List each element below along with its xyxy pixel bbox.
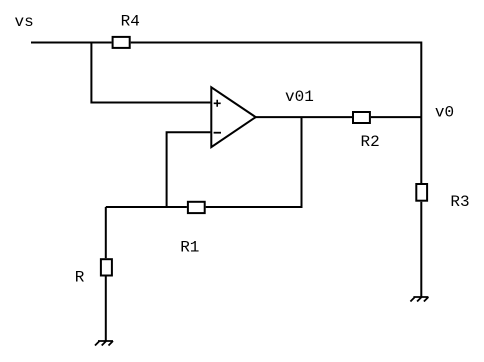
wire R4 to top-right corner [131, 43, 422, 184]
svg-text:v01: v01 [285, 88, 314, 106]
op-amp - symbol [214, 132, 221, 134]
wire op-amp - input [167, 132, 211, 207]
wire R to ground [105, 277, 107, 342]
wire node A to R1 [106, 206, 187, 208]
svg-text:R1: R1 [180, 238, 199, 256]
resistor R3 [416, 184, 427, 201]
svg-text:R4: R4 [121, 13, 140, 31]
ground (left) [95, 341, 113, 346]
resistor R1 [188, 202, 205, 213]
wire vs branch to op-amp + input [91, 42, 210, 103]
wire vs to R4 [31, 42, 112, 44]
op-amp U1 [211, 87, 255, 147]
svg-text:R: R [75, 269, 85, 287]
resistor R [101, 259, 112, 275]
wire R3 to ground [420, 202, 422, 297]
wire op-amp output v01 [256, 116, 352, 118]
svg-text:v0: v0 [435, 103, 454, 121]
wire R2 to v0 node [371, 116, 421, 118]
svg-text:R2: R2 [361, 133, 380, 151]
wire node A down to R [105, 207, 107, 258]
wire R1 to feedback riser [206, 117, 302, 207]
op-amp + symbol [214, 100, 221, 107]
svg-text:R3: R3 [450, 193, 469, 211]
resistor R4 [113, 37, 130, 48]
ground (right, node 0) [410, 297, 428, 302]
svg-text:vs: vs [15, 13, 34, 31]
resistor R2 [353, 112, 370, 123]
